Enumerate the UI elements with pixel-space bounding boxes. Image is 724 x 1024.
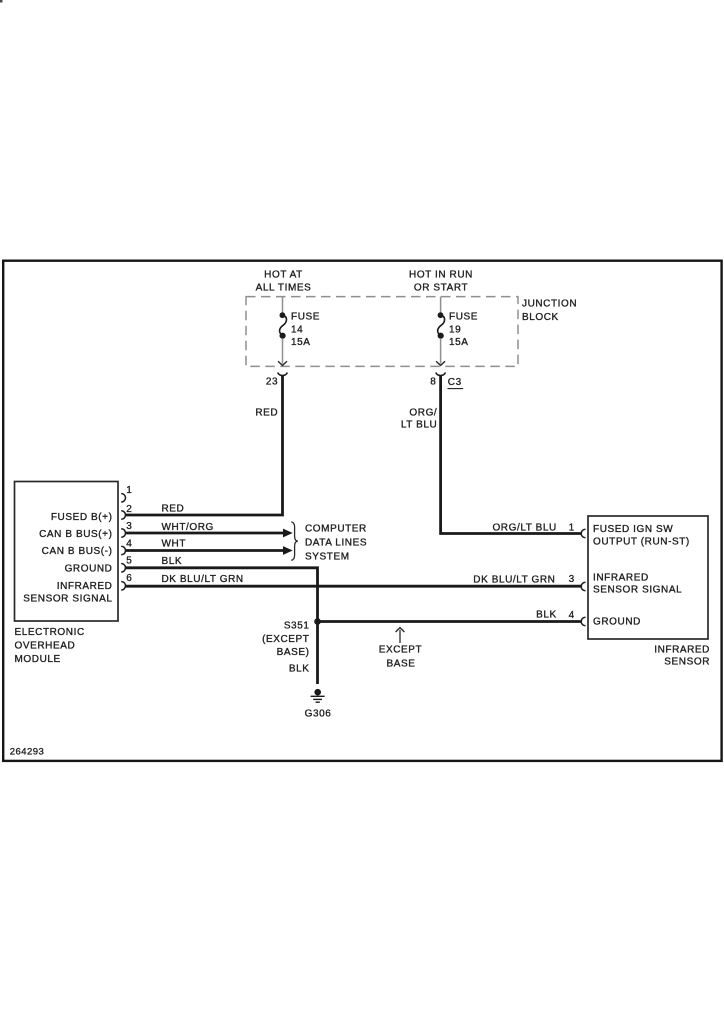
fuse F19 feed wire (top) [440,297,442,313]
svg-text:264293: 264293 [10,746,44,757]
sensor pin 3 connector cup [581,582,585,591]
svg-text:LT BLU: LT BLU [401,420,437,431]
svg-text:3: 3 [569,574,575,585]
svg-text:2: 2 [126,504,132,515]
svg-text:MODULE: MODULE [15,654,61,665]
svg-text:5: 5 [126,556,132,567]
wire BLK (S351 to infrared sensor pin 4) [318,620,582,623]
svg-text:RED: RED [255,407,278,418]
svg-text:GROUND: GROUND [593,616,641,627]
svg-text:WHT/ORG: WHT/ORG [162,522,214,533]
svg-text:HOT IN RUN: HOT IN RUN [409,270,473,281]
svg-text:15A: 15A [449,337,469,348]
svg-text:SENSOR SIGNAL: SENSOR SIGNAL [23,594,112,605]
svg-text:FUSE: FUSE [291,312,320,323]
svg-text:FUSED IGN SW: FUSED IGN SW [593,524,673,535]
svg-text:8: 8 [430,377,436,388]
fuse F19 output wire with arrow [440,339,442,364]
wire BLK (EOM pin 5 to splice S351) [126,568,318,622]
wire RED (fuse 14 to EOM pin 2) [126,376,283,515]
svg-text:14: 14 [291,324,303,335]
splice S351 [314,618,321,625]
svg-text:FUSE: FUSE [449,312,478,323]
svg-text:OVERHEAD: OVERHEAD [15,641,76,652]
EOM pin 2 connector cup [121,511,125,520]
svg-text:BLOCK: BLOCK [522,312,559,323]
svg-text:G306: G306 [305,709,332,720]
wire ORG/LT BLU (fuse 19 to infrared sensor pin 1) [441,376,581,534]
svg-text:INFRARED: INFRARED [57,581,113,592]
svg-text:SENSOR: SENSOR [664,657,710,668]
svg-text:FUSED B(+): FUSED B(+) [51,512,113,523]
svg-text:(EXCEPT: (EXCEPT [262,634,309,645]
svg-text:BASE: BASE [387,659,416,670]
sensor pin 4 connector cup [581,617,585,626]
svg-text:BLK: BLK [536,610,557,621]
svg-text:15A: 15A [291,337,311,348]
wire BLK (S351 to ground G306) [316,622,319,685]
EOM pin 3 connector cup [121,529,125,538]
wire WHT (EOM pin 4 to data lines) [126,549,284,552]
EOM pin 1 connector cup [121,494,125,503]
svg-text:4: 4 [126,538,132,549]
fuse 19 [438,312,445,339]
svg-text:JUNCTION: JUNCTION [522,299,577,310]
sensor box infrared sensor [588,516,708,639]
svg-text:1: 1 [126,485,132,496]
module electronic overhead module box [15,482,119,622]
svg-text:SENSOR SIGNAL: SENSOR SIGNAL [593,584,682,595]
wire DK BLU/LT GRN (EOM pin 6 to infrared sensor pin 3) [126,585,582,588]
note EXCEPT BASE with arrow [399,630,401,643]
connector cup pin 23 (junction block output) [278,373,288,376]
svg-text:RED: RED [162,504,185,515]
EOM pin 5 connector cup [121,564,125,573]
svg-text:WHT: WHT [162,539,187,550]
svg-text:4: 4 [569,610,575,621]
EOM pin 6 connector cup [121,582,125,591]
wire WHT/ORG (EOM pin 3 to data lines) [126,532,284,535]
svg-text:DK BLU/LT GRN: DK BLU/LT GRN [473,574,555,585]
svg-text:INFRARED: INFRARED [654,644,710,655]
svg-text:3: 3 [126,521,132,532]
svg-text:DK BLU/LT GRN: DK BLU/LT GRN [162,574,244,585]
svg-text:ORG/LT BLU: ORG/LT BLU [492,522,556,533]
svg-text:BLK: BLK [289,664,310,675]
fuse 14 [280,312,287,339]
svg-text:HOT AT: HOT AT [264,270,303,281]
svg-text:EXCEPT: EXCEPT [379,644,423,655]
svg-text:COMPUTER: COMPUTER [305,524,367,535]
ground G306 [311,689,325,702]
svg-text:ELECTRONIC: ELECTRONIC [15,627,85,638]
svg-text:CAN B BUS(+): CAN B BUS(+) [39,529,112,540]
svg-text:DATA LINES: DATA LINES [305,538,367,549]
brace computer data lines [291,522,298,560]
fuse F14 output wire with arrow [282,339,284,364]
svg-text:C3: C3 [448,377,462,388]
junction block dashed box [246,297,518,367]
svg-text:ORG/: ORG/ [409,407,437,418]
connector cup pin 8 C3 (junction block output) [436,373,446,376]
svg-text:GROUND: GROUND [65,564,113,575]
EOM pin 4 connector cup [121,546,125,555]
svg-text:BASE): BASE) [277,647,310,658]
svg-text:19: 19 [449,324,461,335]
svg-text:OUTPUT (RUN-ST): OUTPUT (RUN-ST) [593,536,690,547]
svg-text:23: 23 [266,377,278,388]
svg-text:OR START: OR START [414,283,468,294]
svg-text:BLK: BLK [162,556,183,567]
svg-text:CAN B BUS(-): CAN B BUS(-) [42,546,113,557]
svg-text:S351: S351 [284,620,310,631]
sensor pin 1 connector cup [581,529,585,538]
svg-text:1: 1 [569,522,575,533]
svg-text:ALL TIMES: ALL TIMES [256,283,312,294]
svg-text:SYSTEM: SYSTEM [305,551,350,562]
svg-text:INFRARED: INFRARED [593,572,649,583]
fuse F14 feed wire (top) [282,297,284,313]
svg-text:6: 6 [126,573,132,584]
